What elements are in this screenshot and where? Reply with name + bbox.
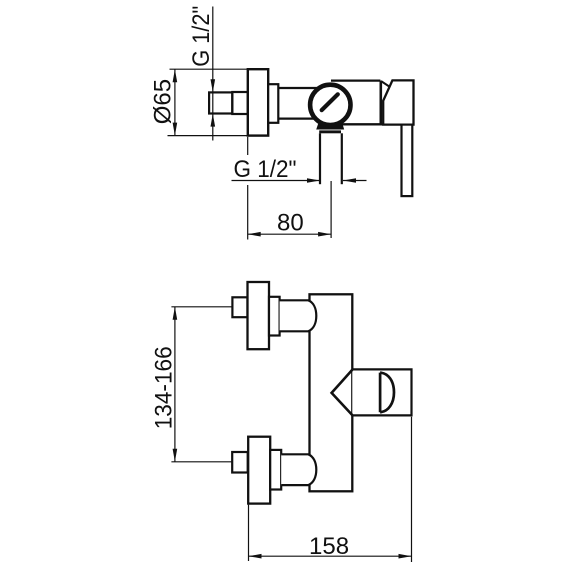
svg-text:134-166: 134-166: [151, 346, 178, 429]
svg-text:G 1/2": G 1/2": [234, 156, 297, 183]
dimension 80: [248, 232, 331, 237]
knob circle: [310, 85, 350, 125]
top nut: [232, 297, 247, 317]
bottom nut: [232, 452, 248, 473]
svg-text:158: 158: [309, 533, 349, 560]
extension line 80 left (lower part): [247, 185, 249, 240]
svg-text:Ø65: Ø65: [149, 79, 176, 124]
coupling nut: [232, 92, 248, 114]
body front: [310, 294, 353, 491]
outlet pipe: [320, 133, 342, 184]
neck: [268, 84, 278, 123]
leader line bottom connection: [171, 461, 232, 463]
top pipe: [280, 300, 317, 331]
leader line G 1/2 with arrows: [232, 178, 367, 183]
svg-text:80: 80: [277, 210, 304, 237]
dimension 158: [249, 554, 412, 559]
wall nipple: [209, 92, 232, 113]
extension line 158 right: [411, 417, 413, 562]
knob collar: [317, 121, 344, 129]
dimension line G 1/2 vertical: [211, 7, 216, 141]
dimension 134-166: [173, 307, 178, 462]
extension line top (flange top): [170, 68, 249, 70]
handle grip D: [380, 373, 394, 413]
bottom pipe: [281, 454, 316, 485]
wall flange: [248, 69, 268, 135]
extension line bottom (flange bottom): [168, 135, 249, 137]
body tube left: [278, 88, 318, 119]
knob slot: [322, 94, 338, 110]
svg-text:G 1/2": G 1/2": [188, 6, 215, 67]
extension line 80 right: [330, 181, 332, 238]
body section right: [331, 81, 414, 125]
extension line 80 left (upper part): [247, 137, 249, 155]
bottom escutcheon: [248, 437, 270, 504]
extension line 158 left: [248, 505, 250, 561]
label G 1/2 (outlet): [230, 155, 300, 183]
top escutcheon: [248, 282, 270, 349]
lever cap: [383, 80, 413, 124]
lever wedge: [381, 81, 389, 86]
handle box: [352, 369, 411, 415]
handle cone: [332, 370, 353, 415]
leader line top connection: [171, 306, 232, 308]
knob band: [319, 130, 341, 133]
bottom step: [270, 450, 281, 490]
top step: [269, 297, 280, 336]
dimension line Ø65: [173, 69, 178, 135]
lever bar: [402, 125, 413, 197]
